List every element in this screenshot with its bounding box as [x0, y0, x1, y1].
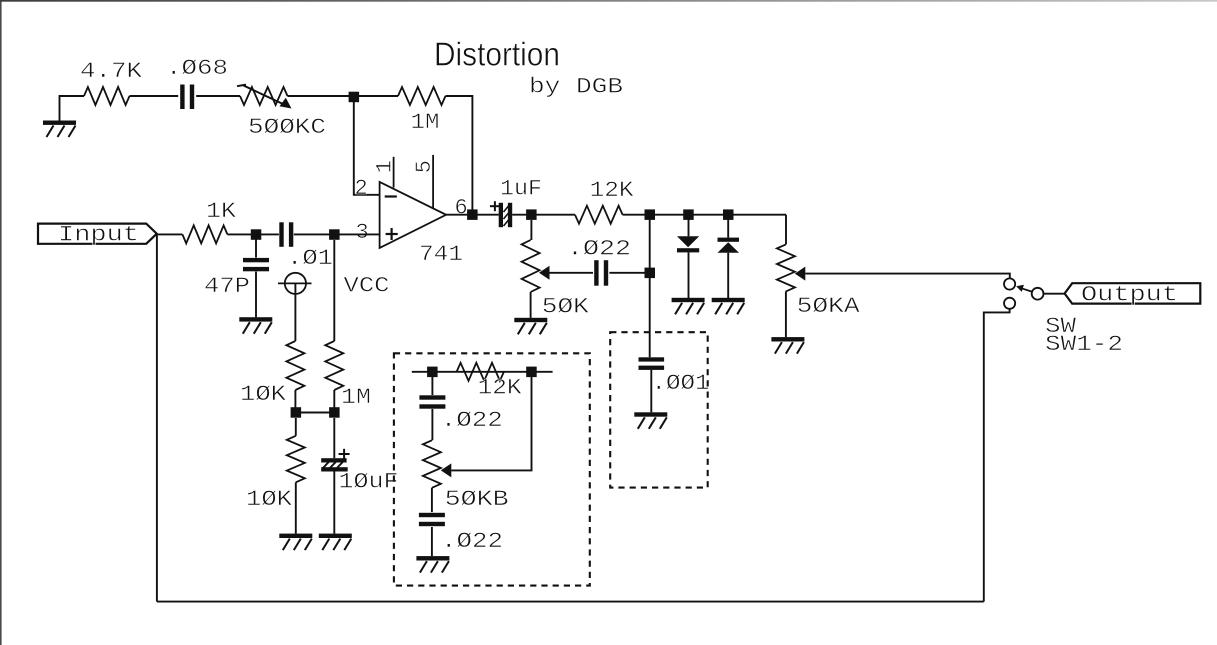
svg-text:.Ø22: .Ø22	[441, 529, 503, 554]
svg-text:1M: 1M	[411, 110, 440, 135]
svg-text:5ØKB: 5ØKB	[445, 487, 509, 512]
diode D1	[677, 236, 699, 247]
wire switch to output tag	[1044, 293, 1065, 295]
switch contact 1	[1004, 278, 1015, 289]
capacitor .022 tone lower	[419, 513, 445, 517]
svg-text:.ØØ1: .ØØ1	[652, 371, 710, 396]
ground G2	[239, 317, 272, 321]
wire .01 to node B	[294, 233, 335, 235]
wire 500KC to node	[288, 95, 355, 97]
potentiometer 50KA	[777, 244, 795, 291]
wire cap to ground	[431, 527, 433, 556]
resistor 1M top	[398, 87, 446, 105]
svg-text:5ØK: 5ØK	[542, 295, 590, 320]
wire node A down to 47P	[255, 234, 257, 257]
wire node down to 50K pot	[530, 220, 532, 240]
capacitor .068	[180, 85, 184, 110]
svg-text:Distortion: Distortion	[434, 36, 560, 73]
node bias left	[291, 407, 302, 418]
wire 1M to node	[333, 390, 335, 413]
dashed box .001	[610, 332, 708, 487]
pin 5 label (rotated)	[412, 160, 437, 173]
wire .022 to node on vertical	[609, 272, 649, 274]
switch lever SW	[1022, 288, 1032, 291]
node clip B	[683, 209, 694, 220]
pin 1 label (rotated)	[373, 160, 398, 173]
top window border	[0, 0, 1217, 2]
node .022 junction	[645, 268, 656, 279]
wire 47P to ground	[255, 272, 257, 318]
svg-text:2: 2	[355, 176, 368, 201]
capacitor 10uF electrolytic	[321, 458, 346, 462]
op-amp 741 triangle	[380, 182, 447, 248]
capacitor 1uF electrolytic	[499, 203, 503, 227]
wire diode2 to ground	[727, 253, 729, 298]
wire 10K lower to ground	[295, 482, 297, 533]
resistor 4.7K	[84, 87, 130, 105]
wire node down to pin 2	[354, 102, 380, 195]
capacitor .001	[639, 357, 665, 361]
wire diode1 down	[688, 215, 690, 237]
ground G10	[771, 337, 804, 341]
node output (pin6 junction)	[467, 209, 478, 220]
svg-text:.Ø22: .Ø22	[567, 237, 631, 262]
wire node to 1M	[354, 95, 398, 97]
node input A	[251, 229, 261, 240]
wire diode1 to ground	[688, 252, 690, 298]
resistor 12K top	[575, 206, 623, 224]
svg-text:1uF: 1uF	[500, 177, 542, 202]
node input B	[329, 229, 340, 240]
node bias right	[329, 407, 340, 418]
svg-text:.Ø22: .Ø22	[441, 408, 503, 433]
wire node to .01 cap	[256, 233, 279, 235]
wire node B down to 1M	[333, 240, 335, 341]
switch common contact 3	[1032, 288, 1044, 300]
svg-text:.Ø1: .Ø1	[287, 246, 333, 271]
ground G1	[43, 121, 76, 125]
wire .068 to 500KC	[196, 95, 240, 97]
resistor 1M bias	[325, 341, 343, 390]
resistor 10K lower	[287, 436, 305, 483]
wire wiper to .022	[550, 272, 594, 274]
svg-text:1: 1	[373, 160, 398, 173]
potentiometer 50KB	[423, 440, 441, 488]
wire 50KB down to cap	[431, 488, 433, 512]
capacitor .022 tone upper	[419, 395, 445, 399]
plus sign noninverting input	[386, 233, 398, 235]
svg-text:5ØØKC: 5ØØKC	[248, 115, 326, 140]
rheostat 500KC	[240, 87, 288, 105]
wire 10uF to ground	[333, 472, 335, 534]
wiper arrow 50KA	[795, 267, 806, 281]
svg-text:VCC: VCC	[344, 274, 390, 299]
Input connector tag	[38, 224, 157, 244]
switch contact 2	[1004, 298, 1015, 309]
arrow of 500KC	[237, 85, 246, 87]
wire tone left down	[431, 377, 433, 395]
wiper arrow 50K	[539, 266, 550, 280]
ground G4	[319, 534, 352, 538]
wire bias right down to 10uF	[333, 418, 335, 458]
pin 5 stub	[432, 155, 434, 208]
wire .001 to ground	[650, 370, 652, 412]
svg-text:5ØKA: 5ØKA	[797, 294, 861, 319]
wire input tip to 1K	[157, 233, 183, 235]
wire 50KA wiper to switch	[805, 274, 1010, 279]
ground G3	[279, 534, 312, 538]
svg-text:1M: 1M	[341, 385, 371, 410]
pin 1 stub	[393, 157, 395, 188]
svg-text:1ØK: 1ØK	[246, 487, 293, 512]
resistor 1K	[182, 225, 227, 243]
wire 1K to node	[227, 233, 256, 235]
node tone right	[526, 367, 537, 378]
wire 12K to corner	[623, 214, 786, 216]
node tone left	[427, 367, 438, 378]
svg-text:Output: Output	[1081, 282, 1178, 307]
ground G7	[634, 412, 667, 416]
svg-text:SW1-2: SW1-2	[1045, 332, 1123, 357]
wire ground stub top-left	[60, 96, 85, 121]
VCC supply symbol	[285, 273, 306, 294]
svg-text:741: 741	[419, 242, 463, 267]
resistor 10K upper	[286, 341, 304, 390]
ground G9	[712, 298, 745, 302]
wire node B to pin 3	[335, 233, 380, 235]
diode D2	[718, 238, 740, 242]
svg-text:.Ø68: .Ø68	[166, 56, 228, 81]
wire pin6 to 1uF	[446, 214, 499, 216]
svg-text:Input: Input	[58, 223, 139, 248]
capacitor .022 mid	[594, 260, 598, 286]
Output connector tag	[1065, 283, 1201, 303]
ground G6	[416, 556, 449, 560]
wire 10K to node row	[294, 390, 296, 413]
wire corner down to 50KA	[785, 215, 787, 245]
capacitor 47P	[243, 258, 269, 262]
svg-text:1ØuF: 1ØuF	[339, 470, 399, 495]
wire switch 2 to bottom rail	[984, 309, 1010, 602]
wire 50KA to ground	[785, 291, 787, 337]
wire 1M to corner and down to output node	[446, 96, 473, 210]
wire clip A down to .001	[649, 215, 651, 358]
capacitor .01	[279, 222, 283, 247]
node after 1uF	[526, 209, 537, 220]
svg-text:12K: 12K	[478, 376, 523, 401]
wire left riser to input	[156, 234, 158, 601]
svg-text:4.7K: 4.7K	[80, 59, 143, 84]
wire tone top row	[412, 371, 553, 373]
wire diode2 down	[727, 215, 729, 238]
svg-text:by DGB: by DGB	[529, 75, 623, 100]
ground G8	[672, 298, 705, 302]
bottom rail wire	[157, 601, 984, 603]
svg-text:47P: 47P	[204, 274, 250, 299]
svg-text:1ØK: 1ØK	[240, 382, 287, 407]
ground G5	[514, 318, 547, 322]
wire bias row	[296, 412, 335, 414]
wire VCC symbol down to 10K	[294, 283, 296, 341]
wire bias left down	[295, 418, 297, 436]
svg-text:3: 3	[356, 220, 369, 245]
svg-text:1K: 1K	[206, 199, 237, 224]
wire 50KB wiper loop	[451, 377, 531, 470]
potentiometer 50K	[522, 240, 540, 292]
wire node to 12K	[531, 214, 575, 216]
svg-text:12K: 12K	[590, 178, 635, 203]
dashed box tone network	[394, 353, 590, 585]
svg-text:6: 6	[455, 196, 468, 221]
resistor 12K tone	[457, 363, 504, 381]
wiper arrow 50KB	[441, 463, 452, 477]
node clip C	[723, 209, 734, 220]
node top (junction to pin2)	[349, 92, 360, 103]
wire 50K pot to ground	[530, 292, 532, 318]
node clip A	[645, 209, 656, 220]
left window border	[0, 0, 2, 645]
wire 1uF to node	[512, 214, 531, 216]
wire cap to 50KB	[431, 409, 433, 440]
svg-text:5: 5	[412, 160, 437, 173]
minus sign inverting input	[385, 195, 397, 197]
wire 4.7K to .068	[130, 95, 179, 97]
